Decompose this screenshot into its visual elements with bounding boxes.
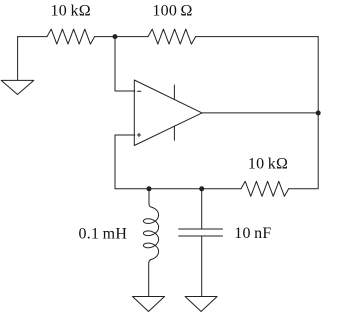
- wire capacitor top lead: [201, 189, 203, 229]
- wire noninverting input: [115, 135, 241, 189]
- node junction dot top: [113, 34, 118, 39]
- wire inductor bottom lead: [149, 260, 151, 297]
- svg-text:10 kΩ: 10 kΩ: [248, 156, 288, 173]
- svg-text:10 kΩ: 10 kΩ: [51, 2, 91, 19]
- svg-text:0.1 mH: 0.1 mH: [78, 225, 127, 242]
- ground inductor: [133, 297, 165, 312]
- resistor R3 10k zigzag: [241, 181, 289, 196]
- wire left vertical to ground: [17, 37, 19, 81]
- ground left: [1, 80, 34, 94]
- node output dot: [316, 111, 321, 116]
- wire inverting input from top node: [115, 37, 135, 91]
- op-amp U1 triangle: [134, 80, 202, 146]
- wire top-left horizontal: [18, 36, 47, 38]
- svg-text:10 nF: 10 nF: [234, 225, 271, 242]
- ground capacitor: [185, 297, 217, 312]
- capacitor C1 plates: [179, 229, 223, 236]
- op-amp top power pin: [173, 85, 175, 100]
- op-amp bottom power pin: [173, 126, 175, 140]
- resistor R1 10k zigzag: [47, 29, 95, 44]
- wire op-amp output: [202, 112, 318, 114]
- node dot L: [147, 186, 152, 191]
- wire top-right horizontal: [196, 36, 319, 38]
- wire between R1 and R2: [95, 36, 148, 38]
- node dot C: [199, 186, 204, 191]
- inductor L1 coil: [143, 207, 158, 260]
- resistor R2 100 ohm zigzag: [148, 29, 196, 44]
- op-amp minus sign: [137, 90, 141, 92]
- wire inductor top lead: [149, 189, 151, 207]
- wire right vertical: [289, 37, 319, 189]
- op-amp plus sign: [137, 133, 140, 136]
- wire capacitor bottom lead: [201, 236, 203, 297]
- svg-text:100 Ω: 100 Ω: [152, 2, 192, 19]
